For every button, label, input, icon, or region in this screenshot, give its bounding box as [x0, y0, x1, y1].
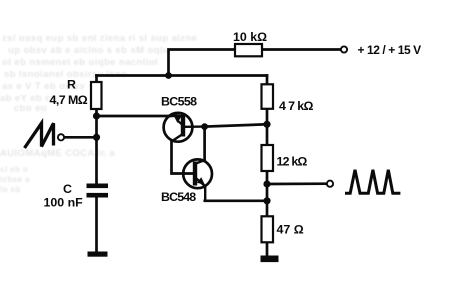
- svg-text:AUIOMAqME COCA lc a: AUIOMAqME COCA lc a: [0, 148, 115, 159]
- wire R bottom down to capacitor: [95, 109, 98, 184]
- svg-text:ol eb nsmenel eb oiqbe nacnli: ol eb nsmenel eb oiqbe nacnliol: [2, 57, 158, 68]
- terminal input: [58, 134, 64, 140]
- wire top rail: [97, 74, 268, 77]
- background bleed-through text: [0, 33, 197, 194]
- wire left branch: rail to R top: [95, 76, 98, 83]
- wire input terminal to RC node: [64, 136, 97, 139]
- svg-text:+ 12 / + 15 V: + 12 / + 15 V: [358, 43, 422, 57]
- svg-text:12 kΩ: 12 kΩ: [277, 155, 308, 169]
- svg-text:cbo eu: cbo eu: [14, 103, 47, 114]
- svg-text:100 nF: 100 nF: [44, 196, 84, 210]
- transistor Q1 BC558 PNP: [164, 113, 205, 142]
- junction node emitter/47R: [263, 197, 270, 204]
- sawtooth input waveform: [25, 123, 54, 148]
- svg-text:10 kΩ: 10 kΩ: [233, 30, 267, 44]
- wire output node to terminal: [267, 182, 327, 185]
- ground left: [88, 252, 108, 257]
- svg-text:R: R: [67, 78, 76, 92]
- wire BC548 collector up to base node: [203, 127, 206, 161]
- wire 47R bottom to ground: [266, 242, 269, 256]
- junction node R bottom / emitter: [93, 112, 100, 119]
- resistor R1 10k: [235, 44, 262, 56]
- resistor R 4.7M: [91, 82, 102, 109]
- transistor Q2 BC548 NPN: [183, 159, 212, 200]
- svg-text:BC558: BC558: [161, 94, 197, 108]
- svg-text:lo sb: lo sb: [0, 185, 21, 194]
- wire right branch: rail to 4.7k top: [266, 76, 269, 85]
- terminal output: [327, 181, 333, 187]
- wire BC558 base to divider node: [205, 124, 267, 126]
- svg-text:cl eb o: cl eb o: [0, 165, 28, 174]
- junction node BC558 base / BC548 collector: [201, 123, 208, 130]
- wire node RC to BC558 emitter: [97, 115, 171, 118]
- wire 10k to corner and down to top rail: [169, 50, 236, 76]
- ground right: [261, 256, 279, 263]
- wire 4.7k bottom to 12k top: [266, 109, 269, 145]
- svg-text:C: C: [63, 182, 72, 196]
- output spikes waveform: [345, 170, 400, 193]
- resistor R3 12k: [262, 145, 274, 171]
- svg-text:up obsv ab e aiclno s eb sM: up obsv ab e aiclno s eb sM oqlu: [8, 45, 169, 56]
- svg-text:icbse a: icbse a: [0, 175, 30, 184]
- junction node input wire: [93, 134, 100, 141]
- wire 12k bottom to 47R top: [266, 171, 269, 216]
- wire BC548 emitter to output node: [205, 199, 267, 202]
- junction node rail/10k: [165, 72, 172, 79]
- junction node divider 4.7k/12k: [263, 121, 270, 128]
- svg-text:4 7 kΩ: 4 7 kΩ: [279, 99, 314, 113]
- junction node output: [263, 180, 270, 187]
- svg-text:4,7 MΩ: 4,7 MΩ: [50, 93, 88, 107]
- wire supply top: terminal to 10k: [262, 48, 341, 51]
- svg-text:47 Ω: 47 Ω: [277, 223, 304, 237]
- capacitor C 100nF: [87, 184, 109, 198]
- terminal supply: [341, 46, 347, 52]
- resistor R2 4.7k: [262, 84, 274, 109]
- wire capacitor bottom to ground: [95, 197, 98, 252]
- wire BC558 collector to BC548 base: [172, 141, 194, 174]
- svg-text:zsl ossq eup sb enl ziena ri: zsl ossq eup sb enl ziena ri sl sup aizn…: [2, 33, 197, 44]
- resistor R4 47: [262, 216, 274, 242]
- svg-text:BC548: BC548: [161, 190, 196, 204]
